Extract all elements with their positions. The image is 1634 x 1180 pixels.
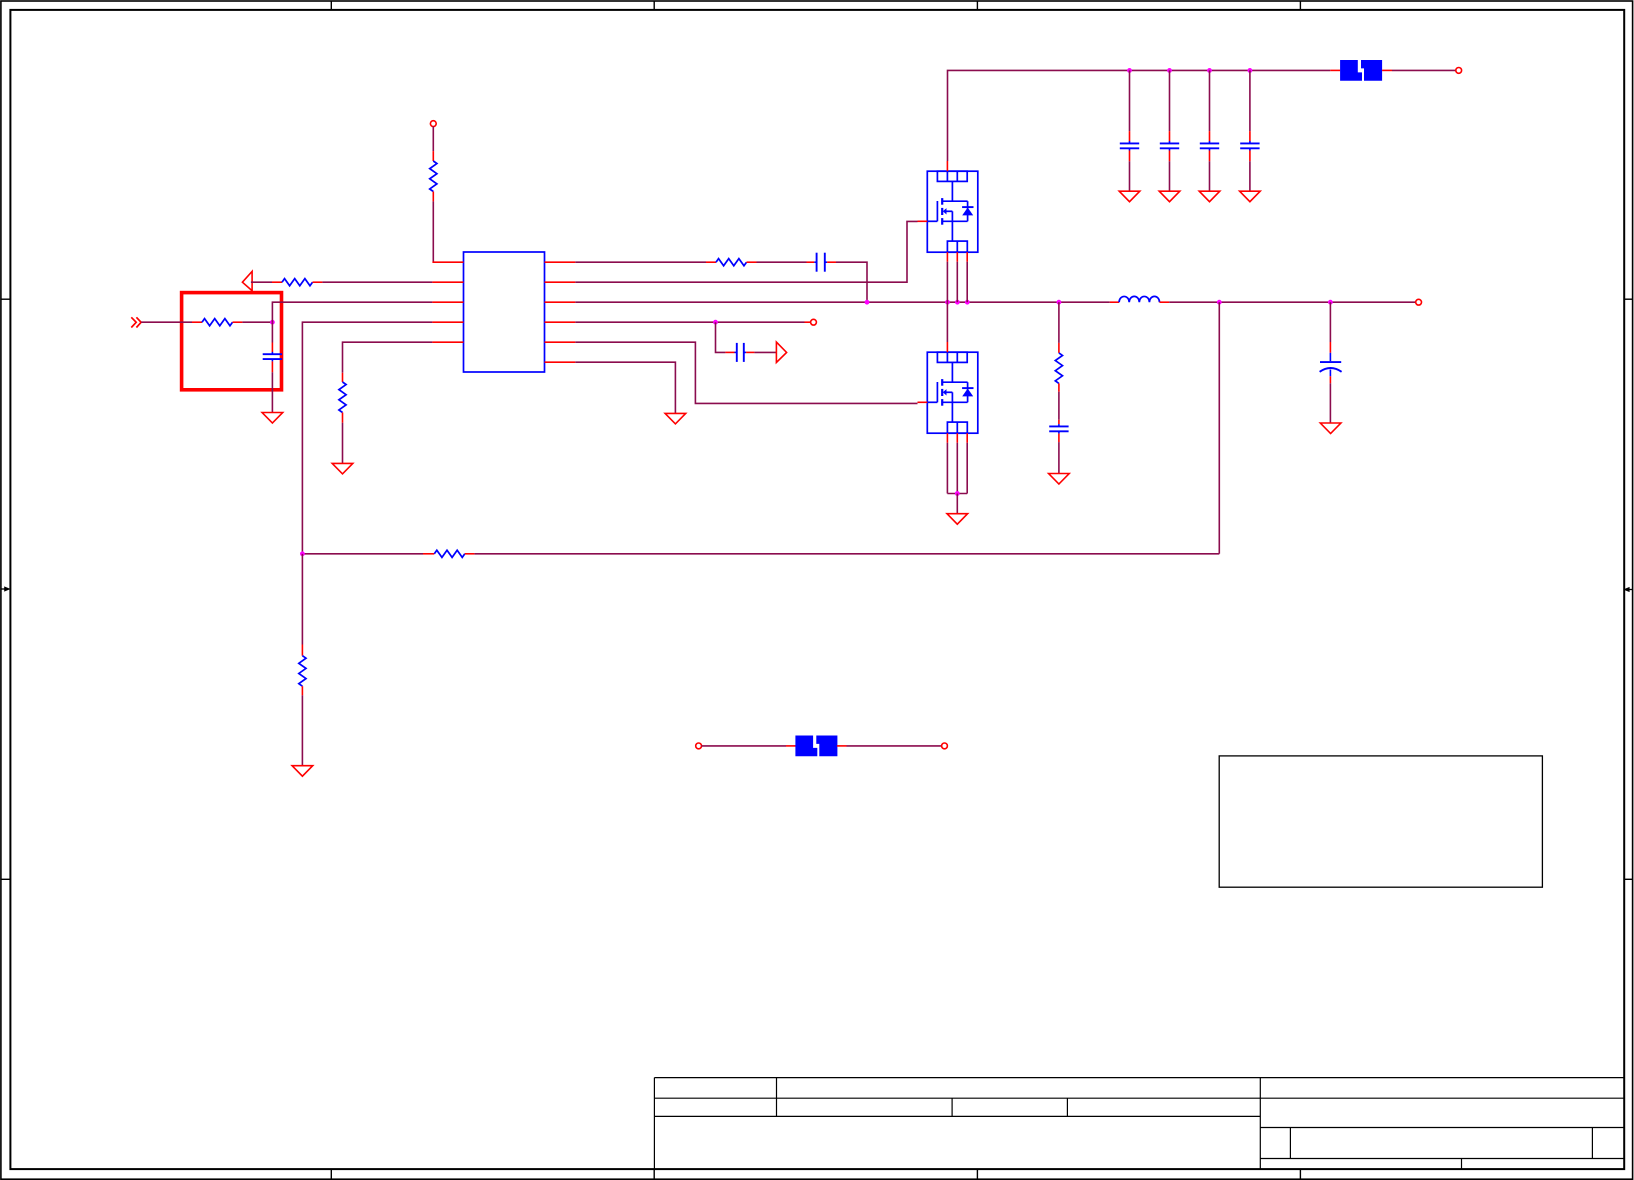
wire feedback tap down — [1218, 302, 1220, 554]
capacitor C9 snubber — [1049, 420, 1068, 442]
wire R2 to IC pin 2 — [322, 281, 432, 283]
capacitor C8 output polarized — [1320, 302, 1342, 423]
ground below R3 — [332, 463, 353, 474]
wire L1 to output terminal — [1169, 301, 1416, 303]
inductor L1 — [1110, 296, 1170, 302]
junction Q2 source tie — [955, 491, 960, 496]
terminal VIN — [1456, 68, 1462, 74]
sheet right center arrow — [1623, 587, 1632, 592]
wire SW node line — [575, 301, 1110, 303]
wire SS branch down — [716, 322, 726, 352]
terminal NT2 left — [696, 743, 702, 749]
wire SW to R6 — [1058, 302, 1060, 343]
port triangle left EN — [242, 271, 252, 290]
junction SS — [713, 320, 718, 325]
terminal SS — [811, 319, 817, 325]
ground below C2 — [1159, 191, 1180, 202]
capacitor C5 filter to ground — [263, 322, 282, 412]
wire R6 to C9 — [1058, 392, 1060, 420]
wire C9 to ground — [1058, 442, 1060, 473]
wire Q2 source pins to tie — [947, 443, 967, 494]
wire R4 to node A — [242, 321, 272, 323]
ground below C5 — [262, 413, 283, 424]
junction SW snubber — [1057, 300, 1062, 305]
junction FB divider — [300, 551, 305, 556]
terminal VCC — [430, 121, 436, 127]
capacitor C7 soft-start — [725, 343, 754, 362]
wire tie to ground — [956, 494, 958, 514]
resistor R5 bootstrap — [706, 259, 757, 266]
wire IC SS pin to terminal — [575, 321, 810, 323]
wire Q1 source pins to SW — [947, 262, 967, 303]
ground feedback divider — [292, 766, 313, 777]
terminal NT2 right — [942, 743, 948, 749]
wire SW to Q2 drain — [946, 302, 948, 342]
wire FB junction to R8 — [301, 554, 303, 645]
wire IC LDRV pin to Q2 gate — [575, 342, 917, 403]
ground below C3 — [1199, 191, 1220, 202]
wire VIN rail — [948, 70, 1331, 161]
ground below C4 — [1240, 191, 1261, 202]
capacitor C2 input bulk — [1160, 70, 1179, 191]
red highlight box around input RC filter — [182, 293, 282, 390]
port chevron input VIN-sense — [131, 317, 141, 327]
resistor R3 comp — [339, 373, 346, 423]
wire node A up to VSNS pin row — [272, 302, 432, 322]
net tie NT1 — [1330, 60, 1392, 81]
sheet left center arrow — [1, 586, 11, 591]
wire IC HDRV pin to Q1 gate — [575, 221, 917, 282]
junction output capacitor — [1328, 300, 1333, 305]
wire chevron to R4 — [141, 321, 192, 323]
net tie NT2 — [795, 736, 837, 757]
resistor R7 feedback upper — [423, 550, 474, 557]
capacitor C3 input bulk — [1200, 70, 1219, 191]
ground output capacitor — [1320, 423, 1341, 434]
junction SW Q1 source pins — [945, 300, 970, 305]
wire feedback horizontal — [474, 553, 1219, 555]
wire IC BOOT pin to R5 — [575, 261, 706, 263]
resistor R2 — [272, 279, 322, 286]
wire R1 to IC VCC pin — [432, 201, 434, 262]
ground Q2 source — [947, 514, 968, 525]
wire port to R2 — [251, 281, 272, 283]
ground below C1 — [1119, 191, 1140, 202]
wire IC pin 5 to R3 — [343, 342, 433, 373]
junction output feedback tap — [1217, 300, 1222, 305]
node A junction — [270, 320, 275, 325]
resistor R1 VCC feed — [430, 151, 437, 201]
junction SW bootstrap — [865, 300, 870, 305]
junction rail capacitors — [1127, 68, 1252, 73]
wire C6 to SW node — [836, 262, 867, 302]
wire VCC terminal to R1 — [432, 126, 434, 151]
ground IC PGND — [665, 413, 686, 424]
wire R8 to ground — [301, 695, 303, 765]
capacitor C4 input bulk — [1240, 70, 1259, 191]
wire NT1 to terminal — [1392, 69, 1456, 71]
resistor R4 input filter — [192, 319, 242, 326]
wire R7 to FB junction — [302, 553, 423, 555]
resistor R8 feedback lower — [299, 645, 306, 696]
title block — [654, 1078, 1624, 1170]
wire R5 to C6 — [757, 261, 807, 263]
capacitor C1 input bulk — [1120, 70, 1139, 191]
wire C7 to port — [754, 351, 776, 353]
ground snubber — [1049, 474, 1070, 485]
notes rectangle bottom-right — [1219, 756, 1542, 887]
resistor R6 snubber — [1055, 343, 1062, 392]
terminal VOUT — [1416, 299, 1422, 305]
port triangle right SS — [776, 342, 786, 362]
wire IC FB pin to divider — [302, 322, 432, 554]
wire R3 to ground — [342, 423, 344, 464]
transistor Q2 low-side MOSFET — [918, 342, 978, 443]
wire NT2 right — [837, 745, 942, 747]
controller IC U1 — [432, 252, 575, 372]
transistor Q1 high-side MOSFET — [918, 161, 978, 262]
wire NT2 left — [701, 745, 796, 747]
wire IC PGND pin to ground — [575, 362, 675, 413]
capacitor C6 bootstrap — [807, 253, 837, 272]
